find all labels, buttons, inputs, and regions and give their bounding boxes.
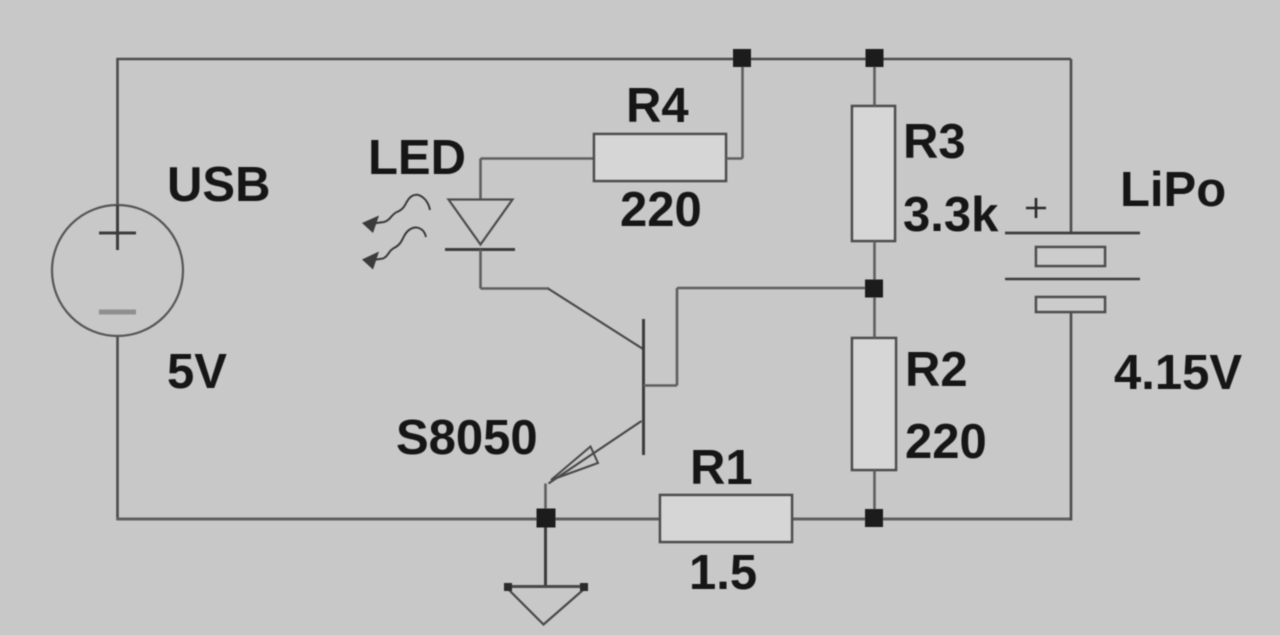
svg-text:LED: LED	[368, 131, 466, 185]
svg-text:LiPo: LiPo	[1120, 163, 1226, 217]
node junction top left	[733, 49, 751, 67]
resistor R3 box	[852, 106, 895, 241]
LED light arrow lower	[373, 228, 426, 260]
transistor Q1 S8050 collector diagonal	[548, 289, 643, 350]
LED D1 triangle	[449, 200, 513, 245]
node junction emitter	[537, 509, 556, 528]
node junction bottom right	[865, 509, 883, 527]
wire R2 top stub	[873, 288, 876, 338]
wire LED anode drop	[479, 159, 482, 201]
svg-text:220: 220	[620, 183, 702, 237]
node junction divider	[865, 280, 883, 298]
wire cathode to collector	[481, 287, 550, 290]
wire battery bottom drop	[1070, 312, 1073, 521]
transistor Q1 emitter arrowhead	[551, 447, 598, 481]
resistor R2 box	[852, 338, 896, 470]
node junction top right	[866, 49, 884, 67]
svg-text:R1: R1	[690, 441, 753, 495]
transistor Q1 base bar	[642, 319, 645, 455]
wire bottom rail left	[117, 518, 661, 521]
svg-text:220: 220	[905, 415, 987, 469]
svg-text:R3: R3	[903, 115, 966, 169]
svg-text:USB: USB	[167, 158, 270, 212]
resistor R1 box	[660, 495, 792, 542]
svg-text:S8050: S8050	[396, 411, 538, 465]
wire left rail lower	[116, 336, 119, 520]
transistor Q1 emitter diagonal	[549, 421, 642, 484]
plus sign of source	[99, 205, 136, 250]
wire R3 top stub	[873, 59, 876, 106]
svg-text:4.15V: 4.15V	[1114, 346, 1242, 400]
wire LED cathode drop	[479, 250, 482, 289]
wire R4 right elbow	[726, 59, 743, 159]
battery BT1 top plate	[1005, 232, 1140, 235]
ground symbol	[507, 587, 587, 625]
battery BT1 middle plate	[1005, 278, 1140, 280]
svg-text:1.5: 1.5	[689, 546, 757, 600]
ground wire drop	[544, 517, 547, 586]
wire LED top to R4	[481, 157, 595, 160]
wire bottom rail right	[792, 518, 1071, 521]
wire top rail	[117, 58, 1072, 61]
svg-text:R4: R4	[626, 79, 689, 133]
svg-text:5V: 5V	[167, 345, 227, 399]
wire R2 bottom stub	[873, 470, 876, 518]
minus sign of source	[99, 310, 136, 315]
battery BT1 cell box 1	[1036, 247, 1105, 266]
wire emitter drop	[544, 484, 547, 518]
wire battery top drop	[1070, 59, 1073, 233]
svg-text:3.3k: 3.3k	[903, 188, 999, 242]
wire left rail upper	[116, 58, 119, 205]
svg-text:R2: R2	[905, 343, 968, 397]
battery BT1 cell box 2	[1036, 297, 1105, 312]
battery BT1 plus sign	[1026, 198, 1046, 218]
resistor R4 box	[594, 134, 726, 181]
LED light arrow upper	[373, 195, 430, 224]
voltage source USB circle	[52, 205, 183, 336]
wire base lead	[644, 288, 875, 386]
LED cathode bar	[445, 248, 515, 251]
wire R3 bottom stub	[873, 241, 876, 288]
